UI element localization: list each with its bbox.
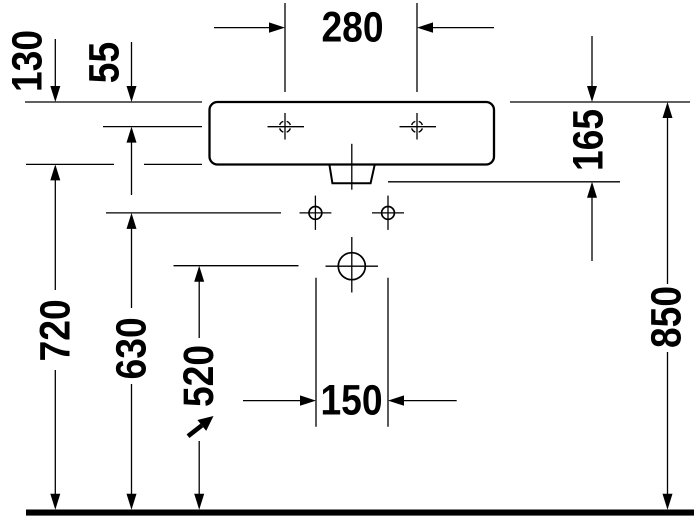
dimension 520 lower stem and floor arrow	[198, 441, 200, 496]
tap hole left	[268, 113, 305, 140]
svg-text:130: 130	[4, 30, 51, 92]
svg-text:520: 520	[176, 345, 223, 407]
dimension 280 left arrow	[214, 27, 270, 29]
svg-text:55: 55	[81, 42, 128, 83]
tap hole right	[400, 113, 437, 140]
dimension 165 up arrow	[587, 182, 597, 198]
drain level extension line	[174, 265, 299, 267]
outlet bottom extension line	[388, 181, 620, 183]
pointer arrow near 520	[188, 416, 214, 436]
svg-text:720: 720	[32, 299, 79, 361]
svg-text:850: 850	[643, 286, 690, 348]
dimension 55 up arrow	[127, 127, 137, 143]
drain hole	[326, 237, 379, 293]
svg-text:630: 630	[108, 317, 155, 379]
dimension 280 right arrow	[432, 27, 494, 29]
dimension 165 down arrow	[591, 36, 593, 88]
dimension 720 and 130 shared up arrow	[50, 164, 60, 180]
fixing hole left	[300, 196, 332, 230]
dimension 850 lower stem and floor arrow	[667, 352, 669, 496]
washbasin outline	[210, 102, 495, 165]
dimension 150 left arrow	[243, 400, 301, 402]
rim level extension line right	[510, 101, 690, 103]
svg-text:150: 150	[320, 377, 382, 424]
dimension 55 down arrow	[131, 42, 133, 88]
fixing hole level extension line	[106, 212, 281, 214]
55 level extension line	[103, 126, 202, 128]
floor line	[26, 510, 694, 516]
dimension 850 up arrow	[663, 102, 673, 118]
outlet centerline	[351, 144, 353, 190]
dimension 150 right arrow	[403, 400, 457, 402]
dimension 630 lower stem and floor arrow	[131, 384, 133, 496]
rim level extension line left	[25, 101, 202, 103]
fixing hole right	[372, 196, 404, 230]
overflow outlet trapezoid	[330, 165, 375, 183]
svg-text:165: 165	[565, 109, 612, 171]
dimension 150 extension lines	[315, 278, 317, 427]
dimension 720 lower stem and floor arrow	[54, 370, 56, 496]
basin underside extension line	[26, 163, 114, 165]
dimension 130 down arrow	[54, 39, 56, 88]
dimension 280 extension lines	[284, 3, 286, 92]
dimension 520 up arrow	[194, 266, 204, 282]
dimension 630 up arrow	[127, 213, 137, 229]
svg-text:280: 280	[321, 4, 383, 51]
